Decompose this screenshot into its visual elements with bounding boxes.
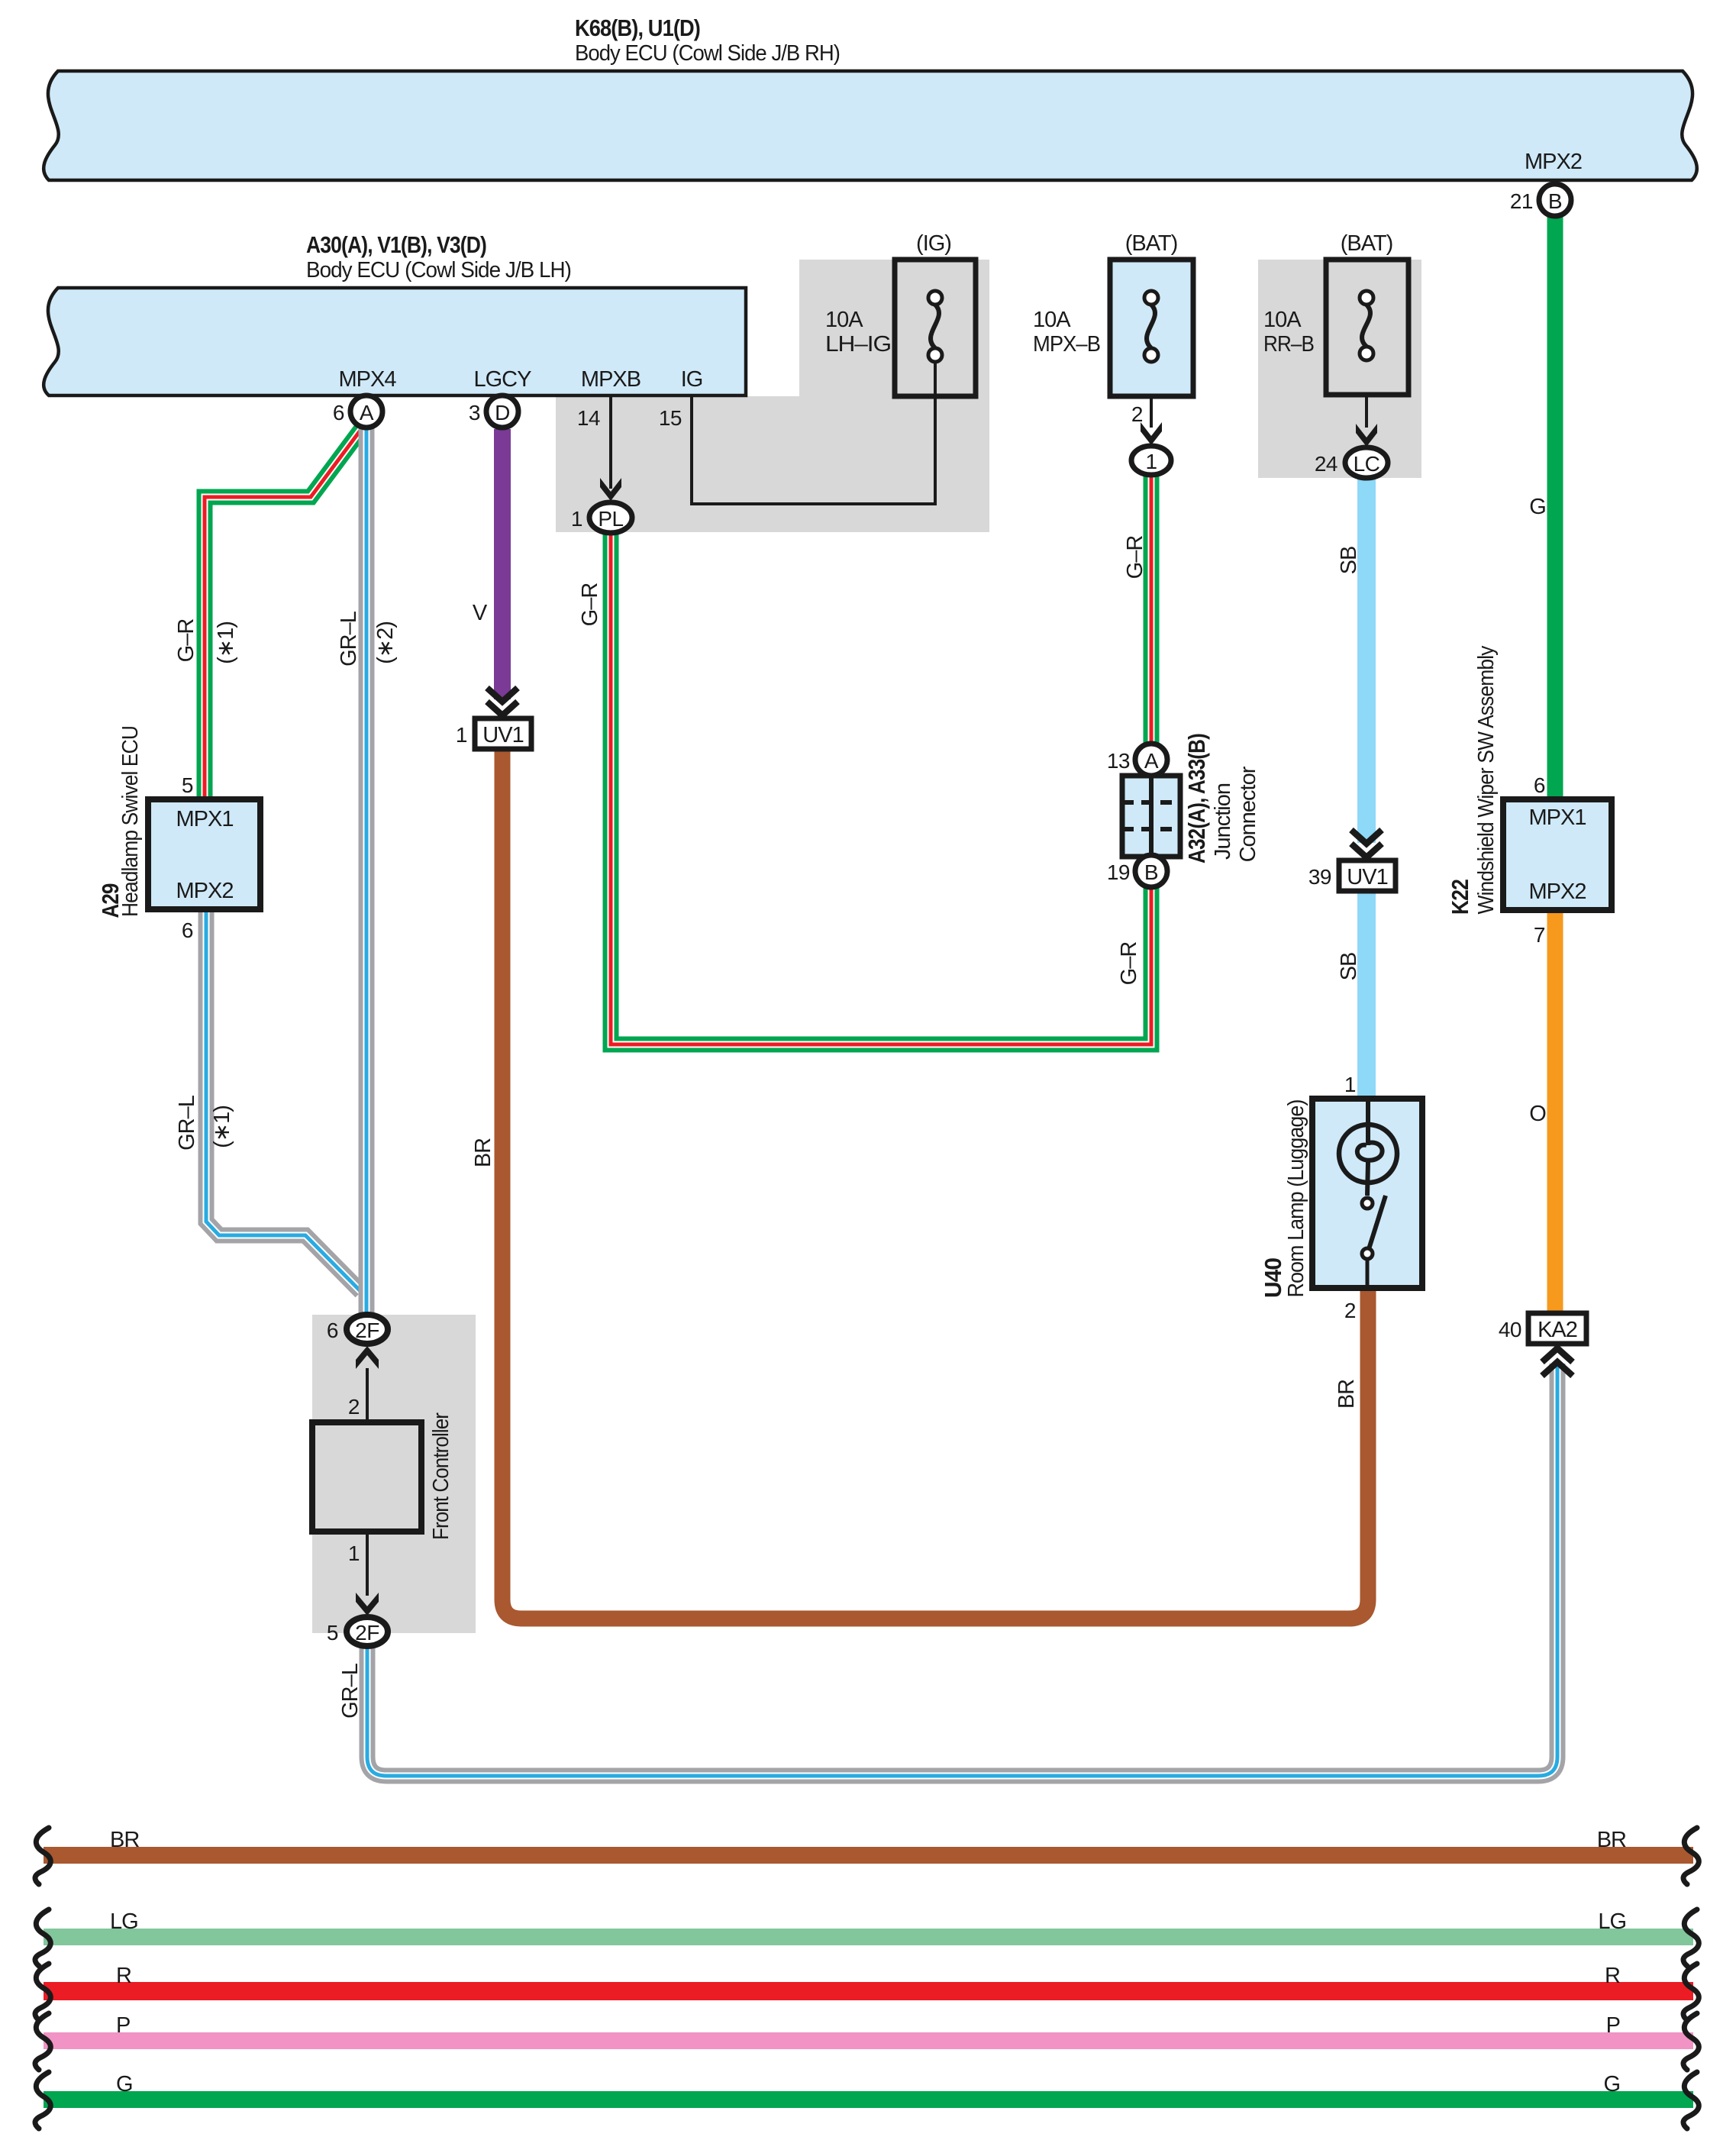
svg-text:GR–L: GR–L: [337, 611, 361, 667]
svg-text:G: G: [1603, 2072, 1620, 2097]
arrow into PL: [600, 478, 621, 501]
svg-text:Body ECU (Cowl Side J/B RH): Body ECU (Cowl Side J/B RH): [575, 41, 840, 66]
svg-text:2: 2: [1131, 402, 1143, 426]
svg-text:A: A: [360, 401, 374, 424]
svg-text:6: 6: [1534, 773, 1545, 797]
svg-text:BR: BR: [110, 1828, 139, 1852]
svg-text:O: O: [1529, 1102, 1546, 1126]
lamp bulb: [1366, 1100, 1370, 1145]
svg-text:G–R: G–R: [1117, 942, 1141, 986]
svg-text:(BAT): (BAT): [1341, 231, 1393, 256]
svg-text:KA2: KA2: [1538, 1318, 1577, 1342]
svg-text:LGCY: LGCY: [474, 367, 532, 392]
fuse 10A RR-B: [1326, 260, 1408, 395]
svg-text:(IG): (IG): [916, 231, 951, 256]
svg-text:UV1: UV1: [482, 723, 523, 747]
svg-text:2: 2: [348, 1395, 360, 1419]
wire GR-L from Front Controller 2F pin 5 across to KA2 connector 40: [367, 1364, 1557, 1776]
svg-text:5: 5: [327, 1621, 338, 1645]
fuse 10A LH-IG: [895, 260, 976, 396]
svg-text:(∗1): (∗1): [214, 621, 238, 664]
wire IG pin 15 black lead to LH-IG fuse: [692, 361, 935, 504]
junction connector A32(A), A33(B) : pin 13 A: [1135, 744, 1167, 776]
lead from fuse to LC: [1365, 395, 1368, 428]
wire G-R (*1) from connector A to A29 MPX1 pin 5: [205, 425, 364, 799]
wire V from connector D down to UV1 connector 1: [494, 429, 511, 699]
svg-text:G–R: G–R: [1123, 536, 1147, 579]
svg-text:MPXB: MPXB: [581, 367, 641, 392]
svg-text:G–R: G–R: [174, 619, 198, 663]
connector 3 D on LH band: [486, 395, 518, 428]
svg-text:6: 6: [333, 401, 344, 424]
junction connector block: [1122, 776, 1180, 857]
svg-text:G: G: [1529, 495, 1546, 519]
svg-text:MPX4: MPX4: [339, 367, 397, 392]
svg-text:V: V: [473, 601, 488, 625]
svg-text:G: G: [116, 2072, 133, 2097]
svg-text:MPX1: MPX1: [1529, 805, 1586, 830]
wire LG bus: [44, 1929, 1693, 1945]
svg-text:Windshield Wiper SW Assembly: Windshield Wiper SW Assembly: [1474, 645, 1499, 914]
wire G-R from fuse MPX-B connector 1 down to junction connector pin 13 (A): [1144, 474, 1160, 744]
arrow down into 2F pin 5: [356, 1593, 379, 1616]
connector 24 LC: [1345, 447, 1388, 478]
svg-text:BR: BR: [1597, 1828, 1626, 1852]
svg-text:A32(A), A33(B): A32(A), A33(B): [1183, 734, 1210, 863]
svg-text:U40: U40: [1260, 1258, 1286, 1298]
Front Controller box: [312, 1422, 421, 1532]
svg-text:10A: 10A: [1033, 308, 1071, 332]
shaded junction-block panel around LH-IG fuse and PL: [556, 260, 989, 532]
wire O from K22 MPX2 pin 7 down to KA2 connector 40: [1547, 910, 1563, 1313]
svg-text:B: B: [1144, 860, 1158, 884]
svg-text:A: A: [1144, 749, 1159, 773]
shaded junction-block panel around RR-B fuse and LC: [1258, 260, 1421, 478]
wire GR-L (*2) from connector A down to Front Controller 2F pin 6: [359, 428, 375, 1316]
svg-text:15: 15: [659, 406, 682, 430]
svg-text:B: B: [1548, 189, 1562, 213]
double chevron arrow up into KA2: [1542, 1348, 1573, 1376]
svg-text:MPX1: MPX1: [176, 807, 234, 831]
svg-text:LH–IG: LH–IG: [825, 332, 891, 357]
svg-text:BR: BR: [1334, 1380, 1359, 1409]
wire BR bus: [44, 1847, 1693, 1864]
svg-text:(∗2): (∗2): [373, 621, 398, 664]
svg-text:1: 1: [456, 723, 467, 747]
svg-text:LG: LG: [1598, 1909, 1626, 1934]
wire P bus: [44, 2032, 1693, 2049]
svg-text:MPX2: MPX2: [1529, 880, 1586, 904]
svg-text:LG: LG: [110, 1909, 138, 1934]
ECU band A30(A),V1(B),V3(D) Body ECU (Cowl Side J/B LH): [44, 288, 746, 395]
svg-text:6: 6: [182, 918, 193, 942]
svg-text:BR: BR: [471, 1138, 495, 1167]
svg-text:21: 21: [1510, 189, 1533, 213]
U40 Room Lamp (Luggage): [1312, 1099, 1422, 1288]
svg-text:1: 1: [1145, 450, 1157, 473]
svg-text:LC: LC: [1354, 452, 1380, 476]
wire G-R from PL pin 1 across to junction connector pin 19 (B): [611, 532, 1151, 1044]
switch: [1362, 1198, 1373, 1209]
ECU band K68(B),U1(D) Body ECU (Cowl Side J/B RH): [44, 71, 1697, 180]
svg-text:D: D: [495, 401, 510, 424]
svg-text:2F: 2F: [355, 1319, 379, 1342]
shaded panel around Front Controller: [312, 1315, 476, 1633]
svg-text:Headlamp Swivel ECU: Headlamp Swivel ECU: [118, 726, 143, 917]
wire MPXB pin 14 black lead to PL: [609, 396, 612, 489]
svg-text:Front Controller: Front Controller: [429, 1412, 453, 1540]
connector 39 UV1: [1339, 860, 1396, 891]
junction connector pin 19 B: [1135, 855, 1167, 887]
lead from box pin 1 to arrow: [366, 1532, 369, 1596]
svg-text:PL: PL: [598, 507, 623, 531]
connector 6 A on LH band: [350, 395, 382, 428]
K22 Windshield Wiper SW Assembly: [1503, 799, 1612, 910]
connector 1 PL: [589, 502, 632, 533]
svg-text:6: 6: [327, 1319, 338, 1342]
wire SB from LC pin 24 down to UV1 connector 39: [1357, 477, 1376, 843]
svg-text:1: 1: [348, 1541, 360, 1565]
svg-text:MPX2: MPX2: [176, 879, 234, 903]
svg-text:GR–L: GR–L: [338, 1663, 363, 1719]
svg-text:RR–B: RR–B: [1263, 332, 1314, 357]
wire SB from UV1 39 down to U40 pin 1: [1357, 890, 1376, 1099]
ECU A29 Headlamp Swivel ECU: [148, 799, 260, 909]
svg-text:1: 1: [1344, 1073, 1356, 1096]
svg-text:19: 19: [1107, 860, 1130, 884]
svg-text:Junction: Junction: [1211, 783, 1235, 860]
svg-text:10A: 10A: [825, 308, 863, 332]
wire G from RH band pin 21 (B) down to K22 MPX1 pin 6: [1547, 216, 1563, 799]
svg-text:2: 2: [1344, 1299, 1356, 1322]
svg-text:K68(B), U1(D): K68(B), U1(D): [575, 15, 700, 41]
svg-text:(BAT): (BAT): [1125, 231, 1178, 256]
svg-text:7: 7: [1534, 923, 1545, 947]
connector 5 2F: [347, 1617, 388, 1646]
svg-text:10A: 10A: [1263, 308, 1302, 332]
svg-text:5: 5: [182, 773, 193, 797]
svg-text:24: 24: [1315, 452, 1337, 476]
svg-text:GR–L: GR–L: [175, 1095, 199, 1151]
svg-text:MPX–B: MPX–B: [1033, 332, 1100, 357]
double chevron arrow into UV1 (1): [487, 688, 518, 715]
svg-text:13: 13: [1107, 749, 1130, 773]
wire GR-L (*1) from A29 MPX2 pin 6 joining the (*2) pair: [206, 909, 361, 1292]
svg-text:G–R: G–R: [578, 583, 602, 627]
connector 21 B on RH band: [1539, 184, 1571, 216]
svg-text:R: R: [1605, 1964, 1620, 1988]
svg-text:MPX2: MPX2: [1525, 150, 1582, 174]
wire R bus: [44, 1982, 1693, 2000]
svg-text:40: 40: [1499, 1318, 1521, 1341]
svg-text:39: 39: [1308, 865, 1331, 889]
double chevron arrow into UV1 (39): [1351, 830, 1382, 857]
fuse 10A MPX-B: [1110, 260, 1193, 396]
svg-text:14: 14: [577, 406, 600, 430]
wire G bus: [44, 2091, 1693, 2108]
svg-text:IG: IG: [681, 367, 703, 392]
connector 40 KA2: [1528, 1313, 1586, 1344]
connector 1 UV1: [475, 718, 531, 749]
svg-text:SB: SB: [1337, 547, 1361, 575]
arrow into connector 1: [1141, 422, 1162, 445]
svg-text:A30(A), V1(B), V3(D): A30(A), V1(B), V3(D): [306, 231, 486, 258]
svg-text:SB: SB: [1337, 953, 1361, 981]
arrow into LC: [1356, 424, 1377, 447]
svg-text:1: 1: [571, 507, 582, 531]
svg-text:R: R: [116, 1964, 131, 1988]
Front Controller: connector 6 2F: [347, 1315, 388, 1344]
svg-text:Room Lamp (Luggage): Room Lamp (Luggage): [1284, 1100, 1308, 1298]
svg-text:P: P: [1606, 2013, 1620, 2038]
svg-text:Body ECU (Cowl Side J/B LH): Body ECU (Cowl Side J/B LH): [306, 258, 571, 282]
svg-text:Connector: Connector: [1236, 766, 1260, 862]
svg-text:3: 3: [469, 401, 480, 424]
lead from fuse to connector 1: [1150, 396, 1153, 428]
svg-text:P: P: [116, 2013, 130, 2038]
svg-text:K22: K22: [1447, 880, 1473, 915]
wire BR from UV1 pin 1 down, across and up to U40 pin 2: [502, 748, 1368, 1619]
lead from arrow to box pin 2: [366, 1368, 369, 1422]
connector 1 below MPX-B: [1131, 446, 1171, 475]
svg-text:(∗1): (∗1): [210, 1106, 234, 1148]
svg-text:UV1: UV1: [1347, 865, 1387, 889]
arrow up into 2F pin 6: [356, 1346, 379, 1369]
svg-text:2F: 2F: [355, 1621, 379, 1645]
